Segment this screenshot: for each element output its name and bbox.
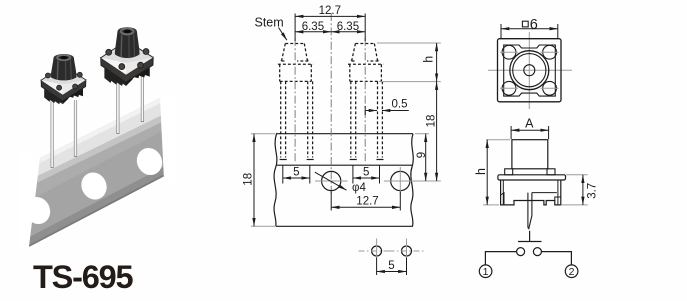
dim 0.5 (lead thickness) [365,99,409,116]
dim h (side view height) [474,140,510,205]
svg-text:12.7: 12.7 [356,196,378,208]
top view outer square [498,39,562,102]
PCB hole P2 [389,239,425,259]
dim 5 (right lead spacing) [353,165,380,183]
switch SW-right leads (dashed) [351,81,383,157]
top view stem circles [510,51,549,90]
dim 5 (left lead spacing) [283,165,310,183]
svg-text:Stem: Stem [255,15,284,29]
carrier tape band [29,98,164,246]
photo switch S1 (front-left) body [41,54,86,104]
svg-text:A: A [525,116,534,130]
white area left of tape cut edge [20,150,40,252]
contact C2 [533,248,541,256]
SW-right lead end ticks [350,159,384,161]
side view body [501,180,561,205]
svg-text:6: 6 [530,17,538,33]
photo switch S2 lead left [116,76,119,134]
dim 6.35 right [331,21,365,33]
side view cover tabs [505,169,555,175]
photo switch S2 lead right [141,74,144,122]
white area right of tape cut edge [160,92,175,185]
pattern centerline [330,13,332,196]
svg-text:1: 1 [483,266,489,278]
tape sprocket hole 1 (clipped at left cut edge) [20,193,54,229]
tape right break edge [411,134,413,227]
svg-text:5: 5 [388,260,394,272]
SW-left lead end ticks [280,159,314,161]
svg-text:6.35: 6.35 [302,21,324,33]
SW-left centerline [294,38,296,163]
side view top plate [498,175,566,180]
PCB hole P1 [359,239,395,259]
photo switch S2 (upper-right) body [101,27,153,86]
svg-text:2: 2 [569,266,575,278]
svg-text:9: 9 [416,152,428,158]
actuator plunger [518,231,542,242]
side view lead pin [528,193,532,229]
stem cone [51,58,77,81]
dim 12.7 (top) [295,5,365,41]
dim 18 (middle drawing, right) [405,82,441,181]
rivets on top face [106,49,112,55]
dim 18 (tape width, left) [243,134,275,227]
terminal 2 [565,265,578,278]
tape strip (section view) top edge [276,133,413,135]
wire to terminal 1 [485,252,516,265]
svg-text:φ4: φ4 [352,182,366,194]
tape bottom edge [276,225,413,227]
dim 9 (tape top to hole center) [415,134,429,181]
top view centerlines [488,32,572,109]
svg-text:0.5: 0.5 [392,99,408,111]
dim 5 (PCB hole spacing) [377,258,407,276]
label Stem with leader [255,15,287,40]
svg-text:18: 18 [426,115,438,128]
tape hole H1 [315,171,348,190]
wire to terminal 2 [541,252,571,265]
dim square-6 [501,17,558,38]
terminal 1 [479,265,492,278]
svg-text:6.35: 6.35 [337,21,359,33]
svg-text:h: h [422,56,436,63]
tape sprocket hole 3 [132,144,166,180]
dim A (stem width) [511,116,548,139]
dim 12.7 (hole spacing) [331,192,400,211]
switch SW-right outline (hidden/dashed) [348,44,383,82]
photo switch S1 lead right [74,100,77,157]
photo switch S1 lead left [50,100,53,168]
svg-text:18: 18 [243,173,255,186]
top view inner cover plate with notches [504,45,556,96]
switch SW-left outline (hidden/dashed) [278,44,313,82]
rivets on top face [45,73,50,78]
svg-text:TS-695: TS-695 [33,259,134,295]
svg-text:5: 5 [293,167,299,179]
tape hole H2 [384,167,417,195]
stem cone [115,27,140,58]
svg-text:12.7: 12.7 [319,5,341,17]
SW-right centerline [364,38,366,163]
dim 3.7 (body height) [562,175,598,205]
top view rivet center ticks [500,52,559,88]
contact C1 [517,248,525,256]
tape inner line [276,164,413,166]
dim 6.35 left [295,21,331,33]
dim phi4 hole leader [315,172,367,194]
switch SW-left leads (dashed) [281,81,313,157]
svg-text:3.7: 3.7 [586,183,598,199]
svg-text:h: h [474,168,488,175]
tape left break edge [274,134,277,227]
dim h (middle drawing, right) [377,43,441,82]
side view stem [512,140,548,169]
svg-text:5: 5 [363,167,369,179]
top view corner rivet circles [502,45,556,95]
tape sprocket hole 2 [77,168,111,204]
